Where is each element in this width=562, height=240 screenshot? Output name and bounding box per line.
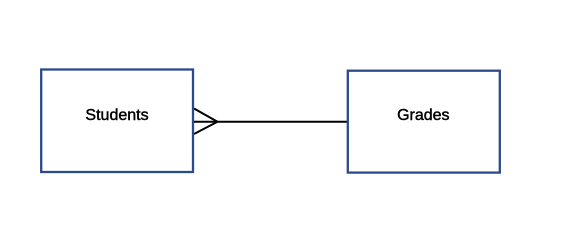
crow's foot lower prong xyxy=(194,122,218,134)
entity box Students xyxy=(41,70,193,173)
crow's foot upper prong xyxy=(194,109,218,122)
wire connector Students-Grades xyxy=(194,121,348,123)
entity box Grades xyxy=(348,71,500,173)
svg-text:Students: Students xyxy=(85,107,148,124)
svg-text:Grades: Grades xyxy=(397,107,449,124)
